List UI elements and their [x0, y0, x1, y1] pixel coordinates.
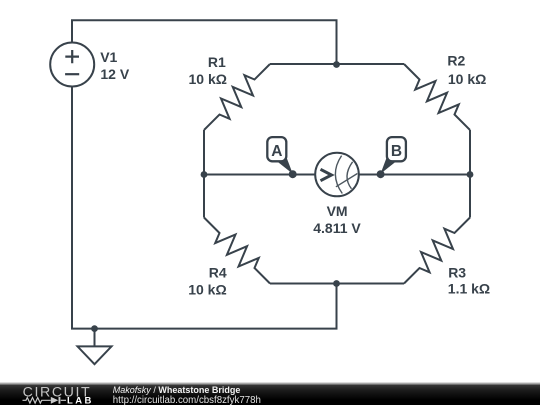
svg-text:http://circuitlab.com/cbsf8zfy: http://circuitlab.com/cbsf8zfyk778h: [113, 395, 261, 405]
wire V1 bottom to ground rail: [72, 87, 337, 329]
svg-text:VM: VM: [327, 203, 348, 219]
svg-text:12 V: 12 V: [100, 66, 129, 82]
resistor R1: [204, 64, 337, 175]
svg-text:LAB: LAB: [67, 396, 94, 405]
wire middle right (node B net): [359, 174, 471, 176]
footer bar: [0, 385, 540, 405]
svg-text:A: A: [271, 143, 282, 160]
junction bottom node: [333, 280, 340, 287]
node A flag: [267, 137, 286, 161]
resistor R2: [337, 64, 471, 175]
node B dot: [377, 170, 385, 178]
svg-text:10 kΩ: 10 kΩ: [448, 71, 486, 87]
footer separator line: [0, 383, 540, 385]
junction top node: [333, 61, 340, 68]
svg-text:V1: V1: [100, 49, 117, 65]
junction right node: [467, 171, 474, 178]
svg-text:R1: R1: [208, 54, 226, 70]
svg-text:R3: R3: [448, 264, 466, 280]
voltmeter VM: [315, 153, 359, 197]
svg-text:10 kΩ: 10 kΩ: [189, 71, 227, 87]
node B flag: [387, 137, 406, 161]
svg-text:10 kΩ: 10 kΩ: [188, 281, 226, 297]
svg-text:B: B: [391, 143, 402, 160]
junction left node: [201, 171, 208, 178]
voltage source V1: [50, 43, 94, 87]
node B pointer: [381, 158, 397, 173]
node A pointer: [277, 158, 293, 173]
wire middle left (node A net): [204, 174, 316, 176]
svg-text:4.811 V: 4.811 V: [313, 220, 361, 236]
resistor R4: [204, 175, 337, 284]
ground: [78, 329, 112, 365]
wire top from V1 to bridge top: [72, 20, 337, 64]
svg-text:R2: R2: [447, 53, 465, 69]
svg-text:1.1 kΩ: 1.1 kΩ: [448, 281, 490, 297]
CircuitLab logo squiggle wire: [23, 398, 67, 404]
svg-text:R4: R4: [209, 264, 227, 280]
resistor R3: [337, 175, 471, 284]
node A dot: [289, 170, 297, 178]
CircuitLab logo diode: [51, 397, 61, 404]
junction ground rail: [91, 325, 98, 332]
svg-text:Makofsky / Wheatstone Bridge: Makofsky / Wheatstone Bridge: [113, 385, 241, 395]
